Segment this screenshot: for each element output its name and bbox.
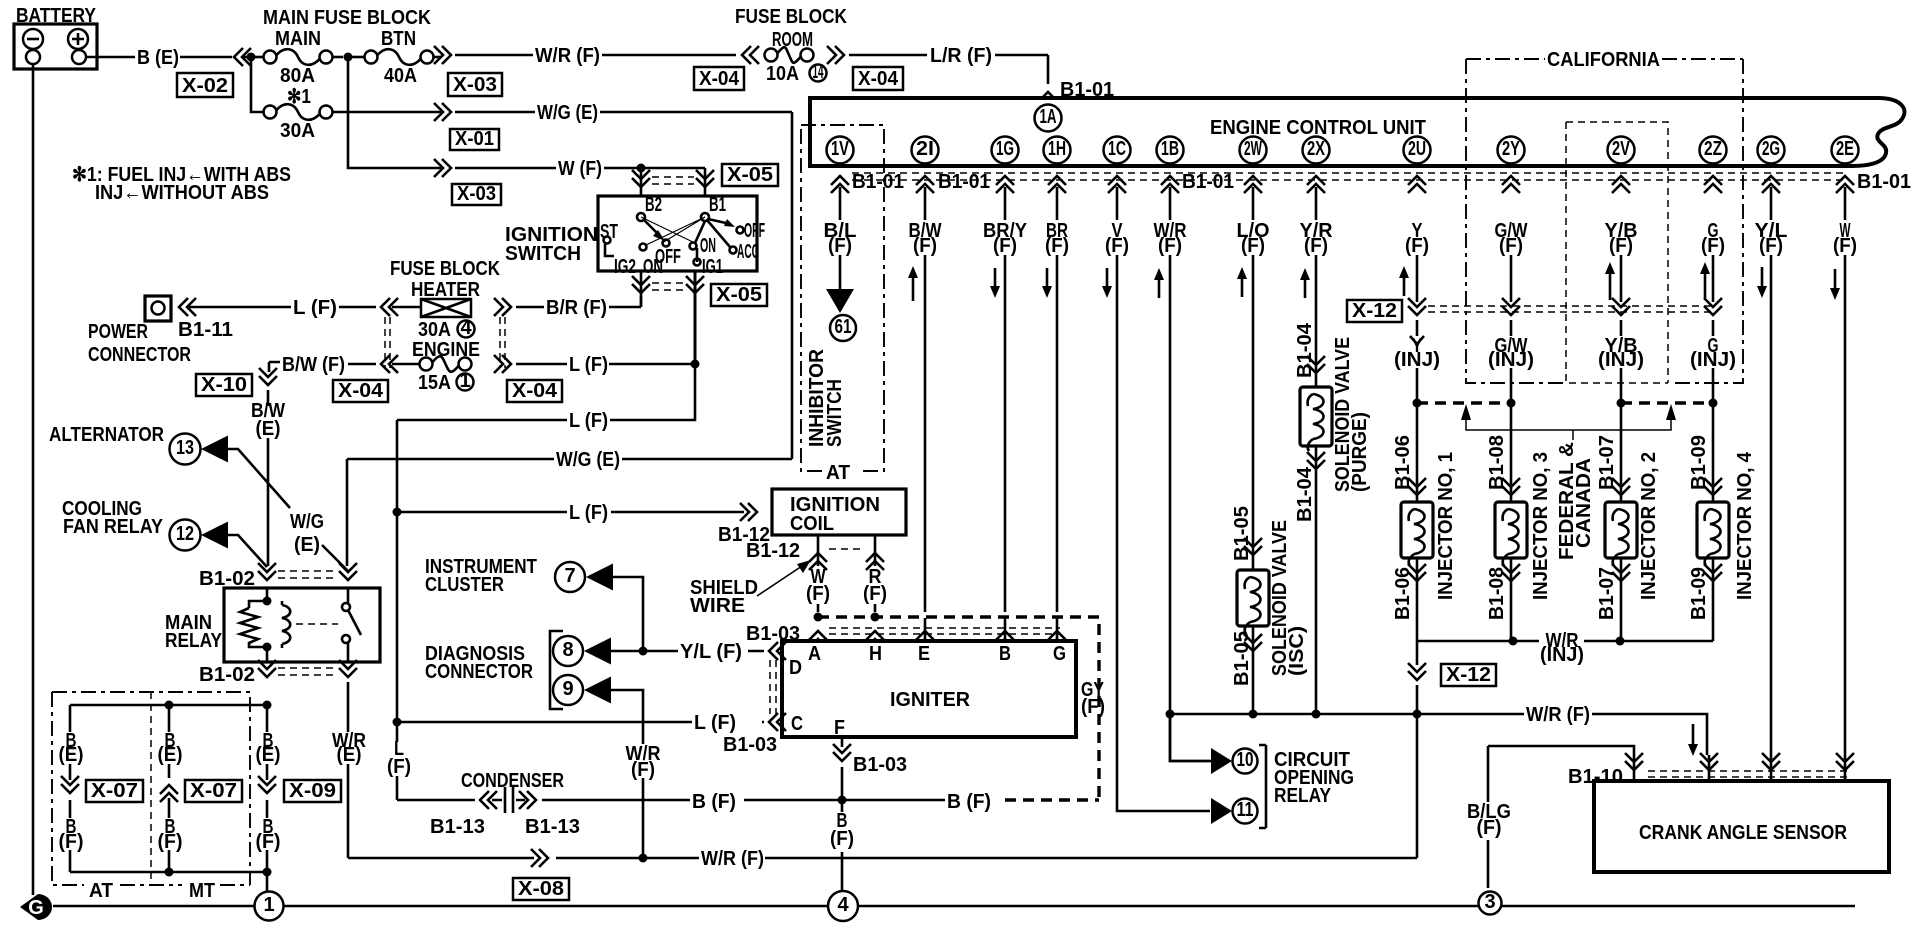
svg-text:IG1: IG1 — [702, 256, 723, 278]
node battery feed junction — [247, 53, 256, 62]
svg-text:X-09: X-09 — [289, 780, 336, 802]
svg-text:FUSE BLOCK: FUSE BLOCK — [390, 258, 500, 280]
injector 3 — [1510, 403, 1513, 641]
svg-text:(E): (E) — [294, 534, 320, 556]
diagnosis terminal 8 — [553, 636, 583, 666]
svg-text:ALTERNATOR: ALTERNATOR — [49, 424, 164, 446]
svg-text:W/G: W/G — [290, 511, 324, 533]
down arrows 2G 2E — [1761, 267, 1764, 288]
svg-text:X-02: X-02 — [182, 75, 228, 97]
svg-text:4: 4 — [460, 317, 472, 339]
connector X-07 — [86, 780, 143, 802]
svg-text:W/R (F): W/R (F) — [701, 848, 764, 870]
wire ignition switch IG2 output — [640, 271, 643, 307]
connector X-04 — [694, 67, 744, 90]
ground node 4 — [828, 891, 858, 921]
ECU pin 2Z — [1700, 137, 1727, 164]
svg-text:IGNITER: IGNITER — [890, 689, 971, 711]
svg-text:W/G (E): W/G (E) — [537, 102, 598, 124]
svg-text:D: D — [789, 657, 802, 679]
battery — [14, 24, 97, 69]
svg-text:7: 7 — [564, 565, 575, 587]
svg-text:F: F — [834, 717, 845, 739]
svg-text:2G: 2G — [1762, 138, 1780, 160]
svg-text:1C: 1C — [1108, 138, 1126, 160]
connector X-04 — [853, 67, 903, 90]
injector 1 — [1416, 403, 1419, 641]
svg-text:3: 3 — [1484, 891, 1495, 913]
connector X-12 lower — [1441, 664, 1496, 686]
ground node 3 — [1479, 892, 1502, 915]
wire battery negative to ground — [32, 64, 35, 895]
svg-text:(F): (F) — [256, 831, 281, 853]
svg-text:G: G — [28, 897, 44, 919]
svg-text:B1-05: B1-05 — [1231, 631, 1253, 686]
engine control unit — [810, 98, 1904, 166]
node L(F) ignition junction — [691, 360, 700, 369]
svg-text:13: 13 — [176, 437, 194, 459]
svg-text:L (F): L (F) — [694, 712, 736, 734]
svg-text:4: 4 — [837, 894, 849, 916]
wire W/R (F) solenoid bus — [1170, 714, 1707, 755]
node BTN junction — [344, 53, 353, 62]
wire ground bus top — [70, 705, 267, 732]
up arrow 2U — [1403, 276, 1406, 296]
svg-text:MAIN: MAIN — [275, 28, 321, 50]
main relay switch — [342, 603, 350, 611]
svg-text:(F): (F) — [631, 759, 655, 781]
svg-text:BATTERY: BATTERY — [16, 5, 97, 27]
wire igniter G from ECU 1H — [1056, 618, 1059, 641]
wire 2I B/W column — [924, 187, 927, 612]
cooling fan relay terminal 12 — [170, 520, 201, 551]
wire igniter E from ECU 2I — [924, 618, 927, 641]
svg-text:B1-04: B1-04 — [1294, 466, 1316, 522]
wire W/G (E) vertical drop — [791, 112, 794, 459]
svg-text:RELAY: RELAY — [165, 630, 223, 652]
svg-text:OFF: OFF — [744, 220, 765, 242]
svg-text:X-04: X-04 — [858, 68, 899, 90]
svg-text:SWITCH: SWITCH — [824, 379, 846, 447]
wire B/W (F) — [269, 362, 419, 364]
svg-text:B1-01: B1-01 — [852, 171, 904, 193]
fuse ROOM 10A — [742, 46, 759, 64]
svg-text:INJECTOR NO, 2: INJECTOR NO, 2 — [1638, 452, 1660, 600]
crank angle sensor — [1594, 781, 1889, 872]
svg-text:INJECTOR NO, 1: INJECTOR NO, 1 — [1435, 452, 1457, 600]
ECU pin 2I — [912, 137, 939, 164]
wire G (INJ) column — [1712, 255, 1715, 403]
ECU pin 2Y — [1498, 137, 1525, 164]
svg-text:(INJ): (INJ) — [1690, 349, 1736, 371]
ignition switch — [598, 196, 757, 271]
svg-text:MT: MT — [189, 880, 215, 902]
svg-text:B1-01: B1-01 — [938, 171, 990, 193]
svg-text:(F): (F) — [1477, 817, 1502, 839]
svg-text:1G: 1G — [996, 138, 1014, 160]
wire battery B(E) feed — [86, 56, 247, 59]
svg-text:B1-02: B1-02 — [199, 664, 255, 686]
power connector — [145, 296, 171, 321]
svg-text:(INJ): (INJ) — [1394, 349, 1440, 371]
svg-text:FAN RELAY: FAN RELAY — [63, 516, 164, 538]
wire 2X Y/R column — [1315, 187, 1318, 714]
svg-text:B/R (F): B/R (F) — [546, 297, 607, 319]
svg-text:30A: 30A — [280, 120, 315, 142]
svg-text:(F): (F) — [1701, 235, 1725, 257]
wire L (F) to x-12 row — [397, 364, 695, 510]
connector X-09 — [284, 780, 341, 802]
ECU pin 1A — [1035, 105, 1062, 132]
AT MT ground connector box — [52, 692, 250, 885]
wire Y (INJ) column — [1416, 255, 1419, 403]
connector X-05 — [711, 284, 767, 306]
svg-text:B2: B2 — [645, 194, 662, 216]
svg-text:B1-09: B1-09 — [1688, 567, 1710, 620]
svg-text:X-04: X-04 — [699, 68, 740, 90]
connector X-12 — [1347, 300, 1402, 322]
svg-text:WIRE: WIRE — [690, 595, 745, 617]
svg-text:2E: 2E — [1836, 138, 1854, 160]
svg-text:(F): (F) — [830, 828, 854, 850]
svg-text:(F): (F) — [993, 235, 1017, 257]
svg-text:L (F): L (F) — [293, 297, 337, 319]
instrument cluster terminal 7 — [555, 562, 585, 592]
wire igniter F output — [841, 737, 844, 892]
circuit opening relay terminal 10 — [1170, 714, 1211, 761]
ECU pin 2W — [1240, 137, 1267, 164]
wire 1C V column — [1117, 187, 1210, 811]
svg-text:1B: 1B — [1161, 138, 1179, 160]
wire ignition switch IG1 output — [694, 271, 697, 364]
svg-text:B1-12: B1-12 — [746, 540, 800, 562]
svg-text:CALIFORNIA: CALIFORNIA — [1547, 49, 1660, 71]
connector X-02 — [177, 73, 233, 97]
svg-text:X-07: X-07 — [91, 780, 138, 802]
svg-text:B1-01: B1-01 — [1857, 171, 1911, 193]
wire L/R (F) to ECU 1A — [849, 55, 1048, 84]
svg-text:(F): (F) — [913, 235, 937, 257]
ground symbol G — [20, 894, 52, 920]
svg-text:(E): (E) — [337, 744, 362, 766]
connector X-03 — [448, 73, 502, 96]
svg-text:X-07: X-07 — [190, 780, 237, 802]
svg-text:8: 8 — [562, 639, 573, 661]
svg-text:1: 1 — [459, 370, 470, 392]
wire W/G (E) middle run — [347, 459, 792, 566]
svg-text:10A: 10A — [766, 63, 799, 85]
svg-text:(F): (F) — [387, 756, 411, 778]
svg-text:(F): (F) — [1405, 235, 1429, 257]
svg-text:14: 14 — [813, 61, 824, 83]
svg-text:POWER: POWER — [88, 321, 148, 343]
svg-text:2Z: 2Z — [1704, 138, 1722, 160]
svg-text:(F): (F) — [1241, 235, 1265, 257]
fuse HEATER 30A — [421, 299, 471, 317]
svg-text:CONNECTOR: CONNECTOR — [88, 344, 191, 366]
federal canada pointer — [1461, 404, 1471, 420]
igniter — [782, 641, 1076, 737]
wire bottom ground bus — [53, 905, 1855, 908]
svg-text:30A: 30A — [418, 319, 451, 341]
solenoid valve ISC — [1237, 570, 1269, 626]
wire W/R (E) relay output — [347, 682, 350, 858]
wire B/W (E) to main relay — [268, 362, 269, 566]
svg-text:(F): (F) — [828, 235, 852, 257]
wire W/R (F) to fuse block room — [455, 54, 736, 57]
wire 1B W/R column — [1170, 187, 1210, 761]
svg-text:1: 1 — [263, 894, 274, 916]
wire Y/B (INJ) column — [1620, 255, 1623, 403]
circuit opening relay label — [1259, 745, 1266, 828]
svg-text:B1-13: B1-13 — [430, 816, 485, 838]
wire injector feed to W/R (F) — [1416, 641, 1419, 714]
svg-text:CANADA: CANADA — [1573, 458, 1595, 548]
svg-text:X-04: X-04 — [512, 380, 558, 402]
connector X-10 — [196, 374, 252, 396]
svg-text:2U: 2U — [1408, 138, 1426, 160]
svg-text:ON: ON — [700, 235, 716, 257]
svg-text:CONNECTOR: CONNECTOR — [425, 661, 533, 683]
alternator terminal 13 — [170, 434, 201, 465]
svg-text:B/W (F): B/W (F) — [282, 354, 345, 376]
svg-text:(F): (F) — [1158, 235, 1182, 257]
svg-text:B1-10: B1-10 — [1568, 766, 1623, 788]
ground node 1 — [255, 892, 284, 921]
svg-text:80A: 80A — [280, 65, 315, 87]
ECU pin 1B — [1157, 137, 1184, 164]
svg-text:B1-03: B1-03 — [853, 754, 907, 776]
inhibitor switch terminal 61 — [830, 315, 856, 341]
svg-text:11: 11 — [1237, 799, 1254, 821]
svg-text:FUSE BLOCK: FUSE BLOCK — [735, 6, 847, 28]
svg-text:2Y: 2Y — [1502, 138, 1520, 160]
ECU pin 1V — [827, 137, 854, 164]
ECU pin 2G — [1758, 137, 1785, 164]
svg-text:COIL: COIL — [790, 513, 834, 535]
ECU pin 2E — [1832, 137, 1859, 164]
svg-text:X-03: X-03 — [453, 74, 497, 96]
svg-text:(F): (F) — [1105, 235, 1129, 257]
svg-text:(PURGE): (PURGE) — [1349, 412, 1371, 492]
svg-text:L (F): L (F) — [569, 410, 608, 432]
wire 7 to Y/L — [613, 577, 643, 649]
ECU pin 2U — [1404, 137, 1431, 164]
diagnosis bracket — [550, 631, 563, 709]
federal dashed box 2V — [1566, 122, 1668, 383]
solenoid valve PURGE — [1300, 387, 1332, 446]
wire B/R (F) to ignition switch — [516, 296, 641, 307]
wire W(F) into ignition switch B2 — [640, 168, 643, 196]
diagnosis connector dashes — [770, 660, 776, 714]
connector X-04 — [333, 380, 388, 402]
circuit opening relay terminal 11 — [1211, 798, 1232, 824]
wire ground bus bottom — [70, 871, 267, 874]
svg-text:B (F): B (F) — [947, 791, 991, 813]
svg-text:H: H — [869, 643, 882, 665]
wire B/LG (F) — [1488, 746, 1634, 888]
svg-text:SWITCH: SWITCH — [505, 243, 581, 265]
svg-text:1H: 1H — [1048, 138, 1066, 160]
wire ignition coil R output — [874, 535, 877, 612]
svg-text:B (E): B (E) — [137, 47, 179, 69]
wire W/R into crank sensor — [1708, 755, 1711, 781]
svg-text:ACC: ACC — [737, 241, 759, 263]
ECU pin 1G — [992, 137, 1019, 164]
injector 2 — [1620, 403, 1623, 641]
wire igniter B from ECU 1G — [1004, 618, 1007, 641]
svg-text:B1-11: B1-11 — [178, 319, 233, 341]
connector X-01 — [450, 129, 499, 150]
svg-text:CRANK ANGLE SENSOR: CRANK ANGLE SENSOR — [1639, 822, 1847, 844]
main relay — [224, 588, 380, 662]
wire 1H BR column — [1056, 187, 1059, 612]
svg-text:X-04: X-04 — [338, 380, 384, 402]
ECU pin 2X — [1303, 137, 1330, 164]
svg-text:B1-01: B1-01 — [1182, 171, 1234, 193]
svg-text:(F): (F) — [1609, 235, 1633, 257]
svg-text:E: E — [918, 643, 930, 665]
svg-text:(E): (E) — [256, 418, 281, 440]
svg-text:BTN: BTN — [381, 28, 416, 50]
svg-text:L/R (F): L/R (F) — [930, 45, 992, 67]
svg-text:G: G — [1053, 643, 1066, 665]
wire L (F) to ignition coil — [397, 512, 744, 720]
wire W(F) into ignition switch B1 — [704, 168, 707, 196]
wire 2W L/O column — [1252, 187, 1255, 714]
svg-text:2I: 2I — [916, 138, 934, 160]
wire W/G (E) top run — [455, 111, 792, 114]
svg-text:(E): (E) — [158, 744, 183, 766]
svg-text:(INJ): (INJ) — [1598, 349, 1644, 371]
main relay coil — [249, 588, 267, 662]
svg-text:(F): (F) — [59, 831, 84, 853]
svg-text:RELAY: RELAY — [1274, 785, 1332, 807]
svg-text:ON: ON — [643, 256, 663, 278]
svg-text:B1-03: B1-03 — [723, 734, 777, 756]
svg-text:(F): (F) — [806, 583, 830, 605]
svg-text:B1-13: B1-13 — [525, 816, 580, 838]
svg-text:X-03: X-03 — [457, 183, 496, 205]
wire B/W cooling fan diagonal — [228, 535, 267, 567]
wire L (F) to igniter C — [397, 721, 764, 724]
svg-text:B1: B1 — [709, 194, 726, 216]
svg-text:IG2: IG2 — [614, 256, 636, 278]
svg-text:(F): (F) — [1045, 235, 1069, 257]
svg-text:(INJ): (INJ) — [1540, 644, 1584, 666]
diagnosis terminal 9 — [553, 675, 583, 705]
wire W/G (E) alternator diagonal — [228, 449, 349, 572]
ECU pin 1C — [1104, 137, 1131, 164]
svg-text:(ISC): (ISC) — [1286, 626, 1308, 676]
svg-text:B1-06: B1-06 — [1392, 567, 1414, 620]
ignition coil — [772, 489, 906, 535]
svg-text:L (F): L (F) — [569, 502, 608, 524]
svg-text:(F): (F) — [1499, 235, 1523, 257]
svg-text:X-05: X-05 — [716, 284, 762, 306]
svg-text:AT: AT — [826, 462, 850, 484]
wire 2G Y/L column — [1770, 187, 1773, 755]
svg-text:INJECTOR NO, 3: INJECTOR NO, 3 — [1530, 452, 1552, 600]
svg-text:B1-07: B1-07 — [1596, 567, 1618, 620]
svg-text:(F): (F) — [863, 583, 887, 605]
connector X-05 — [722, 164, 778, 186]
svg-text:1V: 1V — [831, 138, 849, 160]
wire B1-01 bus dashes — [852, 173, 1845, 180]
svg-text:(E): (E) — [256, 744, 281, 766]
svg-text:INJ←WITHOUT ABS: INJ←WITHOUT ABS — [95, 182, 269, 204]
svg-text:W/G (E): W/G (E) — [556, 449, 620, 471]
svg-text:(F): (F) — [158, 831, 183, 853]
node W(F) to B2 — [637, 164, 646, 173]
svg-text:B1-08: B1-08 — [1486, 567, 1508, 620]
wire L (F) to heater fuse — [188, 306, 421, 309]
svg-text:2X: 2X — [1307, 138, 1325, 160]
svg-text:12: 12 — [176, 523, 194, 545]
svg-text:MAIN FUSE BLOCK: MAIN FUSE BLOCK — [263, 7, 431, 29]
svg-text:X-05: X-05 — [727, 164, 773, 186]
wire heavy dashed injector bus — [1417, 401, 1713, 404]
svg-text:(E): (E) — [59, 744, 84, 766]
svg-text:40A: 40A — [384, 65, 417, 87]
svg-text:HEATER: HEATER — [411, 279, 480, 301]
wire W (F) branch — [348, 61, 441, 168]
svg-text:1A: 1A — [1040, 106, 1057, 128]
svg-text:INJECTOR NO, 4: INJECTOR NO, 4 — [1734, 451, 1756, 600]
svg-text:9: 9 — [562, 678, 573, 700]
connector dashes heater-engine — [385, 317, 505, 368]
svg-text:W/R (F): W/R (F) — [535, 45, 600, 67]
svg-text:X-08: X-08 — [518, 878, 564, 900]
svg-text:W/R (F): W/R (F) — [1526, 704, 1590, 726]
svg-text:61: 61 — [835, 316, 852, 338]
svg-text:CLUSTER: CLUSTER — [425, 574, 504, 596]
ECU pin 1H — [1044, 137, 1071, 164]
svg-text:A: A — [808, 643, 821, 665]
fuse *1 30A branch — [251, 61, 263, 112]
svg-text:(F): (F) — [1304, 235, 1328, 257]
svg-text:X-12: X-12 — [1352, 300, 1397, 322]
wire ignition coil W output — [817, 535, 820, 612]
wire Y/L (F) to igniter D — [611, 650, 764, 653]
wire W/R (F) bottom row — [348, 716, 1417, 858]
svg-text:L (F): L (F) — [569, 354, 608, 376]
wire L (F) engine fuse output — [516, 363, 695, 366]
wire GY (F) dashed igniter ground — [818, 617, 1099, 798]
svg-text:2W: 2W — [1244, 138, 1262, 160]
svg-text:(F): (F) — [1759, 235, 1783, 257]
ECU pin 2V — [1608, 137, 1635, 164]
california dashed box — [1466, 59, 1743, 383]
wire 2E W column — [1844, 187, 1847, 755]
svg-text:(F): (F) — [1833, 235, 1857, 257]
up arrows 2V 2Z — [1609, 272, 1612, 300]
svg-text:10: 10 — [1237, 749, 1254, 771]
connector X-07 — [185, 780, 242, 802]
svg-text:(INJ): (INJ) — [1488, 349, 1534, 371]
connector X-04 — [507, 380, 562, 402]
svg-text:AT: AT — [89, 880, 113, 902]
svg-text:W (F): W (F) — [558, 158, 602, 180]
wire G/W (INJ) column — [1510, 255, 1513, 403]
svg-text:X-10: X-10 — [201, 374, 247, 396]
wire W/R (INJ) bus — [1417, 640, 1713, 643]
svg-text:(F): (F) — [1081, 696, 1105, 718]
svg-text:B: B — [999, 643, 1011, 665]
svg-text:B (F): B (F) — [692, 791, 736, 813]
connector X-08 — [513, 878, 569, 900]
svg-text:Y/L (F): Y/L (F) — [680, 641, 742, 663]
